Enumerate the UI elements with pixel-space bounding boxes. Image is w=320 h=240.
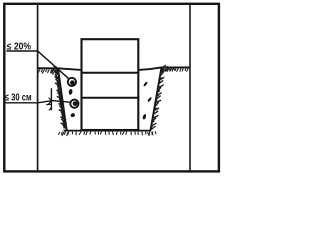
short parallel dash on leader	[46, 103, 52, 105]
depth tick arrow flares	[48, 98, 51, 111]
svg-text:≤ 30 см: ≤ 30 см	[5, 93, 32, 104]
survey mark 2 dot	[73, 101, 78, 106]
block joint upper	[81, 72, 140, 74]
leader line 20% with underline	[6, 51, 68, 79]
left slope inner edge	[56, 71, 65, 129]
hatching tuft at right slope top	[162, 66, 175, 72]
soil dot lower left gap	[70, 113, 75, 118]
trench bottom line	[64, 130, 152, 132]
survey mark 1 ring	[68, 78, 76, 86]
survey mark 2 ring	[70, 100, 78, 108]
ground line left	[38, 68, 81, 70]
left reference line	[37, 5, 39, 170]
depth tick mark vertical	[50, 88, 52, 110]
hatching on left slope	[53, 66, 67, 130]
leader line 30 см with underline	[5, 101, 70, 103]
hatching on right slope	[151, 65, 167, 130]
block stack outline	[82, 39, 139, 130]
left trench slope wall	[58, 68, 67, 130]
survey mark 1 dot	[70, 80, 75, 85]
block joint lower	[81, 97, 140, 99]
right trench slope wall	[151, 67, 162, 130]
soil drop upper left gap	[68, 89, 73, 95]
soil dash right gap 2	[147, 97, 152, 103]
ground line right	[139, 67, 190, 70]
grass hatching below trench bottom	[58, 131, 156, 136]
right reference line	[189, 5, 191, 170]
soil dash right gap 1	[143, 81, 148, 87]
grass hatching right bank	[162, 68, 188, 72]
grass hatching left bank	[38, 69, 58, 76]
soil drop right gap 3	[142, 114, 147, 120]
